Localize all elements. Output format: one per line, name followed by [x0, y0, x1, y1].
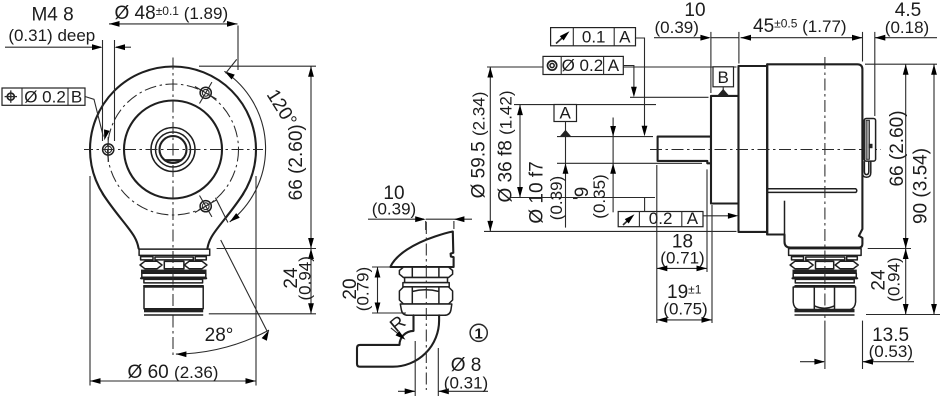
- svg-text:0.2: 0.2: [649, 209, 673, 228]
- circled 1: [470, 324, 487, 342]
- M4 hole extension lines: [103, 40, 115, 141]
- label 19: [663, 282, 707, 319]
- svg-text:90 (3.54): 90 (3.54): [911, 148, 932, 224]
- mounting hole left: [103, 137, 114, 162]
- dimension M4 leader: [5, 44, 131, 50]
- extension lines Ø59.5: [484, 67, 737, 231]
- svg-text:(0.39): (0.39): [547, 176, 566, 220]
- runout frame 0.2 A: [618, 209, 703, 228]
- centerline shaft axis: [650, 149, 881, 151]
- svg-text:(0.18): (0.18): [885, 18, 929, 37]
- svg-text:(0.39): (0.39): [372, 200, 416, 219]
- label Ø60: [128, 362, 219, 383]
- centerline gland: [425, 222, 427, 390]
- body main section: [767, 64, 862, 247]
- label 4.5: [885, 0, 929, 37]
- label 66 side: [887, 110, 908, 186]
- body front section: [739, 66, 768, 232]
- label 66 front: [286, 124, 307, 200]
- svg-text:(0.35): (0.35): [590, 174, 609, 218]
- svg-text:(0.53): (0.53): [869, 342, 913, 361]
- dimension Ø48 line: [109, 21, 238, 70]
- svg-text:B: B: [718, 68, 729, 87]
- dimension 13.5: [800, 359, 914, 365]
- dimension 45: [741, 35, 863, 41]
- connector bottom dark edge front: [144, 309, 203, 315]
- dimension 9: [610, 118, 616, 213]
- flange side: [711, 96, 739, 204]
- bell neck: [103, 194, 244, 249]
- SIDE VIEW GROUP: [469, 0, 940, 369]
- label Ø48: [115, 3, 229, 24]
- side connector ring band: [793, 273, 858, 278]
- leader 0.2A link to Ø36: [644, 198, 646, 212]
- label 90: [911, 148, 932, 224]
- centerline horizontal front view: [84, 149, 263, 151]
- label Ø59.5: [469, 92, 490, 199]
- label 120: [262, 86, 301, 130]
- label M4 8 (0.31) deep: [8, 5, 95, 46]
- visor cap: [390, 232, 453, 268]
- dimension Ø8: [398, 341, 488, 396]
- shaft circle outer (hub): [151, 128, 195, 172]
- label 24 side: [869, 257, 904, 301]
- label 28: [205, 325, 234, 346]
- dimension 4.5: [875, 35, 937, 41]
- extension lines right front: [199, 66, 316, 314]
- svg-text:1: 1: [475, 325, 483, 342]
- shaft flat chord: [165, 159, 182, 161]
- dimension 18: [657, 266, 707, 272]
- svg-text:Ø 36 f8 (1.42): Ø 36 f8 (1.42): [496, 90, 517, 202]
- datum B symbol: [713, 67, 734, 96]
- centerline vertical front view: [172, 57, 174, 357]
- svg-text:Ø 0.2: Ø 0.2: [562, 56, 604, 75]
- position frame leader: [85, 97, 110, 142]
- MIDDLE VIEW GROUP: [340, 183, 488, 396]
- leader Ø0.2A to flange: [623, 66, 637, 98]
- svg-text:(0.75): (0.75): [663, 300, 707, 319]
- datum A symbol: [554, 104, 577, 137]
- centerline connector axis side: [824, 57, 826, 318]
- svg-text:(0.71): (0.71): [660, 248, 704, 267]
- shaft circle middle: [156, 132, 191, 167]
- tick 120 top: [226, 59, 237, 73]
- dimension 20 middle: [372, 267, 406, 313]
- label 10 side: [654, 0, 705, 37]
- connector tabs front: [141, 257, 207, 260]
- connector cap edge: [784, 201, 786, 234]
- gland ring 1: [405, 278, 448, 283]
- dimension 28 line: [221, 240, 267, 331]
- concentricity frame Ø0.2 A: [543, 56, 623, 75]
- R leader: [391, 328, 407, 342]
- connector ring band front: [141, 273, 206, 278]
- extension lines Ø60: [90, 176, 256, 386]
- dimension Ø10 f7: [563, 137, 569, 228]
- svg-text:28°: 28°: [205, 325, 234, 346]
- label 10 middle: [372, 183, 416, 219]
- dimension 66 front: [308, 66, 314, 248]
- body step line: [766, 64, 768, 234]
- svg-text:A: A: [619, 28, 631, 47]
- connector cylinder front: [144, 287, 203, 309]
- position tolerance frame: [2, 87, 85, 106]
- dimension 24 side: [903, 249, 909, 315]
- label 13.5: [869, 325, 913, 361]
- cable elbow: [357, 315, 439, 366]
- svg-text:66 (2.60): 66 (2.60): [286, 124, 307, 200]
- svg-text:(0.94): (0.94): [296, 256, 315, 300]
- dimension 10 middle: [368, 216, 472, 230]
- extension lines Ø36: [510, 105, 656, 198]
- tick 120 bottom: [216, 198, 228, 223]
- label R: [386, 312, 410, 337]
- svg-text:Ø 0.2: Ø 0.2: [24, 87, 66, 106]
- svg-text:Ø 59.5 (2.34): Ø 59.5 (2.34): [469, 92, 490, 199]
- dimension 28 arc: [176, 329, 272, 357]
- svg-text:(0.79): (0.79): [354, 267, 373, 311]
- label Ø36: [496, 90, 517, 202]
- rear stub U loop: [862, 161, 871, 177]
- shaft circle bore: [160, 136, 187, 163]
- gland ring 2: [403, 283, 449, 287]
- dimension 24 front: [308, 249, 314, 314]
- body seam groove: [767, 189, 857, 193]
- svg-text:(0.39): (0.39): [654, 18, 698, 37]
- dimension 120 arc: [223, 69, 266, 224]
- side connector rings: [795, 279, 854, 286]
- dimension Ø36: [517, 105, 523, 198]
- label 20 middle: [340, 267, 373, 311]
- extension lines 13.5: [825, 321, 863, 369]
- bolt circle dash-dot: [108, 84, 239, 215]
- side connector tabs: [792, 257, 858, 260]
- connector hex lens right front: [184, 261, 207, 268]
- label 9: [572, 174, 609, 218]
- mounting hole upper right: [195, 82, 217, 103]
- gland hex nut lower: [399, 287, 452, 304]
- connector rings front: [144, 279, 203, 286]
- extension lines right side: [865, 64, 940, 314]
- svg-text:(0.31): (0.31): [444, 374, 488, 393]
- runout frame 0.1 A: [551, 28, 636, 47]
- dimension 10 top side: [654, 35, 739, 41]
- side connector collar: [789, 249, 862, 256]
- svg-text:B: B: [71, 87, 82, 106]
- extension lines 18/19: [657, 165, 712, 323]
- housing outer circle: [90, 67, 256, 233]
- mounting collar circle Ø36: [124, 101, 222, 199]
- mounting hole lower right: [195, 196, 217, 217]
- dimension 19: [657, 317, 712, 323]
- extension lines top side: [711, 32, 875, 116]
- svg-text:M4 8: M4 8: [31, 5, 73, 26]
- leader 0.2A to mounting face: [703, 213, 738, 219]
- gland hex nut upper: [399, 267, 452, 277]
- svg-text:0.1: 0.1: [582, 28, 606, 47]
- connector hex lens left front: [140, 261, 162, 268]
- extension line flange top: [630, 96, 709, 98]
- label 45: [753, 16, 847, 37]
- rear stub: [864, 119, 875, 162]
- shaft side: [658, 137, 711, 164]
- FRONT VIEW GROUP: [2, 3, 316, 385]
- extension line shaft top: [557, 136, 653, 138]
- extension line shaft bottom: [557, 162, 702, 164]
- svg-text:(0.94): (0.94): [885, 257, 904, 301]
- label 18: [660, 232, 704, 268]
- side connector dark band: [793, 270, 857, 274]
- label 24 front: [281, 256, 315, 300]
- side connector hex body: [793, 287, 855, 310]
- svg-text:A: A: [560, 104, 572, 123]
- label Ø10 f7: [527, 161, 567, 223]
- connector hex mid front: [164, 261, 184, 268]
- svg-text:45±0.5 (1.77): 45±0.5 (1.77): [753, 16, 847, 37]
- svg-text:(0.31) deep: (0.31) deep: [8, 26, 95, 45]
- leader 0.1A to shaft: [636, 38, 648, 136]
- dimension Ø59.5: [487, 67, 493, 231]
- connector hex dark band front: [141, 270, 207, 274]
- svg-text:A: A: [608, 56, 620, 75]
- side connector hex lenses: [790, 261, 858, 269]
- svg-text:A: A: [687, 209, 699, 228]
- side connector bottom dark edge: [795, 309, 855, 315]
- dimension 90: [931, 64, 937, 314]
- dimension 66 side: [903, 64, 909, 248]
- connector collar front: [138, 249, 210, 255]
- svg-text:Ø 10 f7: Ø 10 f7: [527, 161, 548, 223]
- gland dome: [400, 304, 452, 315]
- dimension Ø60: [90, 378, 256, 384]
- svg-text:66 (2.60): 66 (2.60): [887, 110, 908, 186]
- svg-text:Ø 60 (2.36): Ø 60 (2.36): [128, 362, 219, 383]
- label Ø8: [444, 355, 488, 393]
